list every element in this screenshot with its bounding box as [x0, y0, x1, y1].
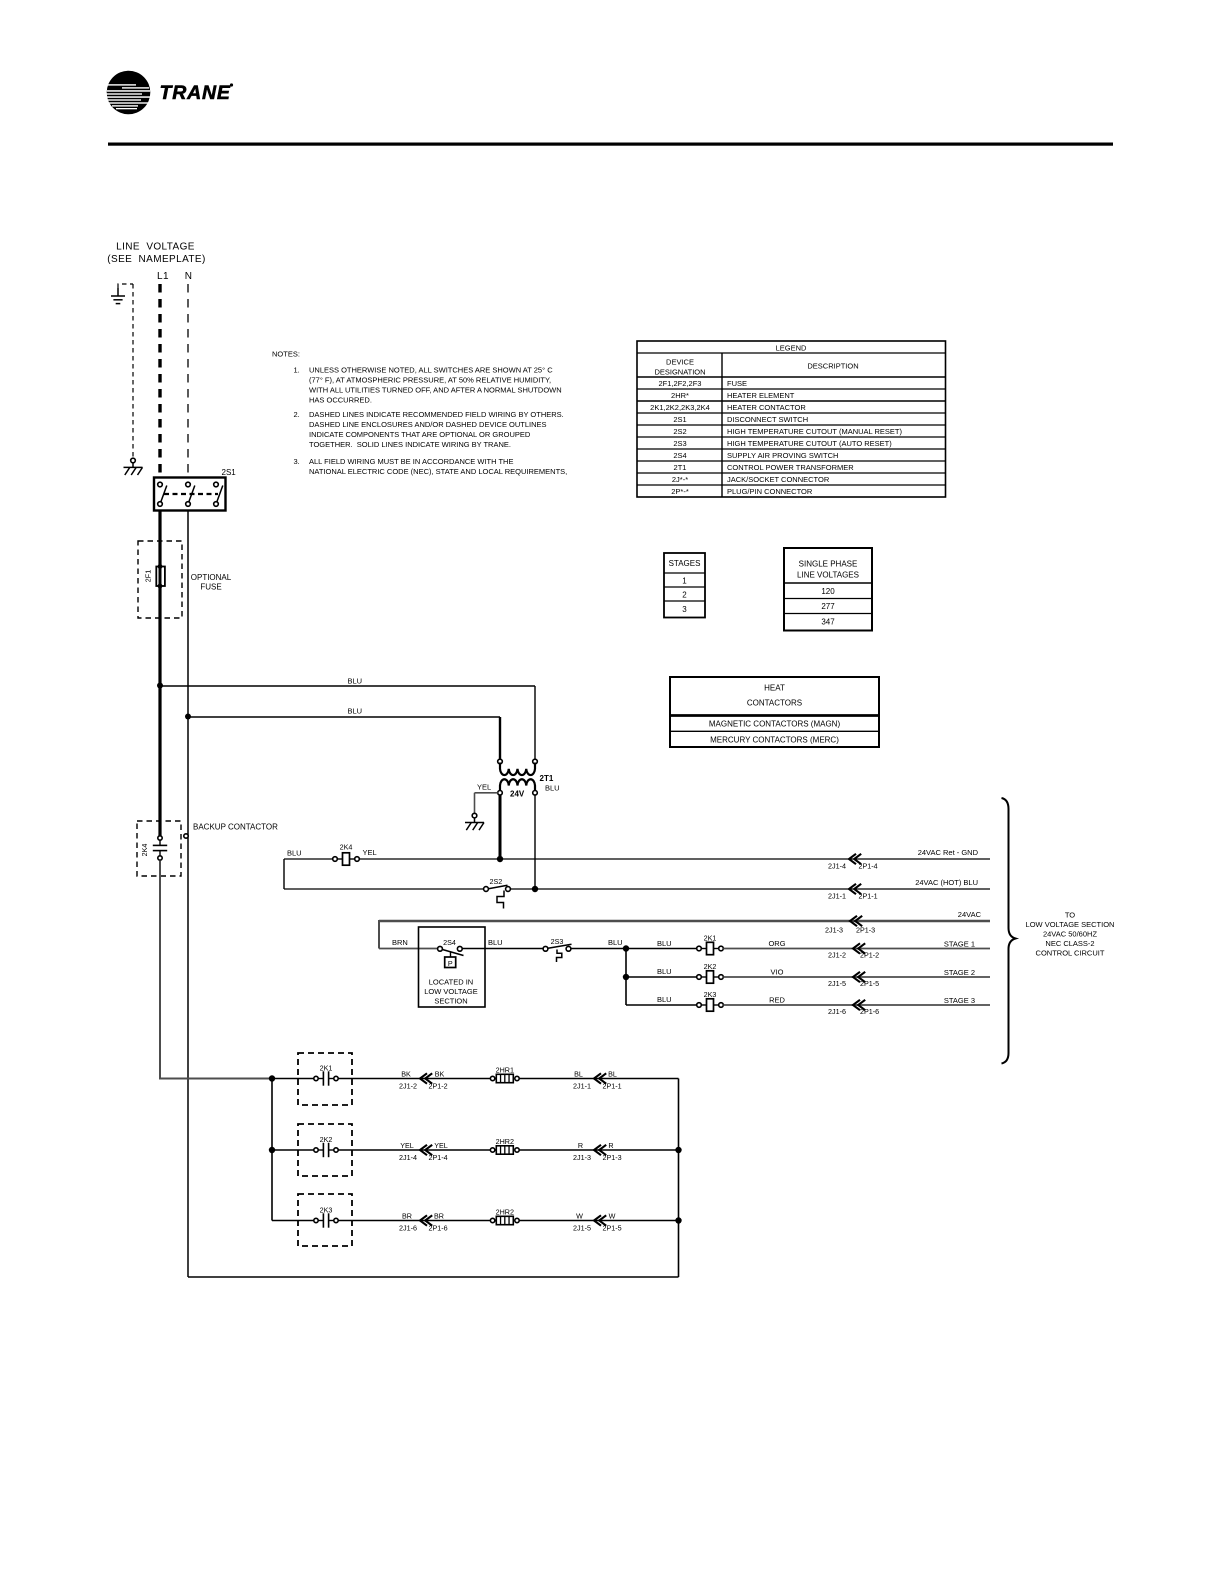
svg-text:2J1-1: 2J1-1: [828, 892, 846, 901]
svg-text:2J1-1: 2J1-1: [573, 1082, 591, 1091]
svg-text:LOW VOLTAGE: LOW VOLTAGE: [424, 987, 477, 996]
svg-text:YEL: YEL: [477, 783, 491, 792]
svg-text:LOW VOLTAGE SECTION: LOW VOLTAGE SECTION: [1026, 920, 1115, 929]
disconnect switch 2S1: [154, 468, 236, 511]
connector 2J1-1 2P1-1: [828, 884, 878, 901]
brace to low voltage section: [1002, 798, 1016, 1064]
svg-text:TRANE: TRANE: [160, 82, 231, 104]
stages table: [664, 553, 705, 618]
svg-text:2: 2: [682, 591, 687, 600]
svg-text:2T1: 2T1: [674, 463, 687, 472]
connector 2J1-5 2P1-5: [828, 972, 879, 988]
svg-text:ORG: ORG: [768, 939, 785, 948]
svg-text:2K1: 2K1: [320, 1064, 333, 1073]
earth ground: [111, 284, 133, 304]
notes text: [272, 350, 567, 477]
svg-text:2K1,2K2,2K3,2K4: 2K1,2K2,2K3,2K4: [650, 403, 710, 412]
svg-text:BR: BR: [434, 1212, 444, 1221]
connector 2J1-4 2P1-4 heater: [399, 1141, 448, 1162]
svg-text:BACKUP CONTACTOR: BACKUP CONTACTOR: [193, 823, 278, 832]
svg-text:CONTACTORS: CONTACTORS: [747, 699, 802, 708]
svg-text:BK: BK: [401, 1070, 411, 1079]
svg-text:24V: 24V: [510, 790, 525, 799]
connector 2J1-2 2P1-2 heater: [399, 1070, 448, 1091]
wire 24VAC HOT BLU line: [284, 888, 990, 890]
svg-text:2P1-6: 2P1-6: [860, 1007, 879, 1016]
svg-text:2S3: 2S3: [673, 439, 686, 448]
svg-text:BK: BK: [435, 1070, 445, 1079]
svg-text:2K2: 2K2: [704, 962, 717, 971]
svg-text:2J1-3: 2J1-3: [825, 926, 843, 935]
contact 2K3: [314, 1206, 338, 1228]
svg-text:2.: 2.: [294, 410, 300, 419]
wire N solid: [187, 511, 189, 1278]
connector 2J1-5 2P1-5 heater: [573, 1212, 622, 1233]
heater row 2 wire: [272, 1149, 679, 1151]
svg-text:2K4: 2K4: [340, 843, 353, 852]
svg-text:BLU: BLU: [657, 967, 672, 976]
svg-text:2J1-6: 2J1-6: [399, 1224, 417, 1233]
svg-text:BLU: BLU: [608, 938, 623, 947]
wire BLU L1 to transformer: [160, 677, 535, 760]
svg-text:2T1: 2T1: [540, 774, 554, 783]
wire YEL to ground: [475, 793, 498, 814]
svg-text:N: N: [185, 271, 193, 282]
label to low voltage section: [1026, 911, 1115, 958]
label OPTIONAL FUSE: [191, 573, 232, 592]
svg-text:2P1-1: 2P1-1: [859, 892, 878, 901]
svg-text:2J1-4: 2J1-4: [399, 1153, 417, 1162]
wire BLU stage3 feed: [626, 995, 699, 1005]
svg-text:3.: 3.: [294, 457, 300, 466]
svg-text:2P1-5: 2P1-5: [860, 979, 879, 988]
svg-text:JACK/SOCKET CONNECTOR: JACK/SOCKET CONNECTOR: [727, 475, 830, 484]
wire L1 dashed: [158, 284, 161, 477]
svg-text:HEAT: HEAT: [764, 684, 785, 693]
coil 2K2: [697, 962, 724, 983]
svg-text:2P*-*: 2P*-*: [671, 487, 689, 496]
svg-text:YEL: YEL: [434, 1141, 448, 1150]
svg-text:L1: L1: [157, 271, 169, 282]
svg-text:BLU: BLU: [657, 939, 672, 948]
left rail heater circuit: [269, 1075, 275, 1220]
Trane logo circle with stripes: [106, 71, 150, 115]
optional fuse dashed box: [138, 541, 182, 618]
connector 2J1-6 2P1-6 heater: [399, 1212, 448, 1233]
svg-text:2P1-2: 2P1-2: [860, 951, 879, 960]
svg-text:2K3: 2K3: [320, 1206, 333, 1215]
svg-text:W: W: [576, 1212, 583, 1221]
svg-text:2P1-5: 2P1-5: [603, 1224, 622, 1233]
wire 24VAC BRN line: [379, 920, 990, 949]
svg-text:1.: 1.: [294, 366, 300, 375]
svg-text:2P1-2: 2P1-2: [429, 1082, 448, 1091]
svg-text:BLU: BLU: [657, 995, 672, 1004]
svg-text:(SEE NAMEPLATE): (SEE NAMEPLATE): [107, 254, 205, 265]
svg-text:NATIONAL ELECTRIC CODE (NEC),: NATIONAL ELECTRIC CODE (NEC), STATE AND …: [309, 467, 567, 476]
svg-text:2P1-1: 2P1-1: [603, 1082, 622, 1091]
svg-text:2J1-3: 2J1-3: [573, 1153, 591, 1162]
bottom return wire: [188, 1276, 679, 1278]
wire L1 to backup contactor: [158, 586, 161, 836]
svg-text:2S2: 2S2: [673, 427, 686, 436]
heater element 2HR2: [490, 1137, 519, 1154]
chassis ground at disconnect: [124, 458, 143, 475]
svg-text:2S4: 2S4: [673, 451, 686, 460]
svg-text:2HR2: 2HR2: [496, 1137, 514, 1146]
svg-text:2J1-2: 2J1-2: [399, 1082, 417, 1091]
connector 2J1-3 2P1-3: [825, 916, 875, 935]
dashed box 2K2 contact: [298, 1124, 352, 1176]
svg-text:2K1: 2K1: [704, 934, 717, 943]
svg-text:2P1-3: 2P1-3: [856, 926, 875, 935]
svg-text:2K3: 2K3: [704, 990, 717, 999]
right rail heater circuit: [675, 1079, 681, 1278]
svg-text:DASHED LINES INDICATE RECOMMEN: DASHED LINES INDICATE RECOMMENDED FIELD …: [309, 410, 564, 419]
svg-text:2S4: 2S4: [443, 938, 456, 947]
svg-text:SUPPLY AIR PROVING SWITCH: SUPPLY AIR PROVING SWITCH: [727, 451, 838, 460]
svg-text:24VAC (HOT) BLU: 24VAC (HOT) BLU: [915, 878, 978, 887]
legend table: [637, 341, 946, 497]
svg-text:MAGNETIC CONTACTORS (MAGN): MAGNETIC CONTACTORS (MAGN): [709, 720, 841, 729]
contact 2K2: [314, 1135, 338, 1157]
svg-text:LINE VOLTAGE: LINE VOLTAGE: [116, 242, 195, 253]
svg-text:TO: TO: [1065, 911, 1075, 920]
svg-text:24VAC Ret - GND: 24VAC Ret - GND: [918, 848, 979, 857]
svg-text:NEC CLASS-2: NEC CLASS-2: [1045, 939, 1094, 948]
heater element 2HR1: [490, 1066, 519, 1083]
switch 2S2 manual cutout: [484, 877, 511, 909]
svg-text:SINGLE PHASE: SINGLE PHASE: [799, 560, 858, 569]
svg-text:LEGEND: LEGEND: [776, 344, 807, 353]
junction rail for stage coils: [623, 945, 629, 1005]
transformer 2T1 primary: [498, 759, 554, 783]
switch 2S3 auto cutout: [543, 937, 571, 962]
wire RED stage3: [723, 995, 990, 1005]
svg-text:2HR1: 2HR1: [496, 1066, 514, 1075]
svg-text:2J1-5: 2J1-5: [573, 1224, 591, 1233]
svg-text:HIGH TEMPERATURE CUTOUT (MANUA: HIGH TEMPERATURE CUTOUT (MANUAL RESET): [727, 427, 903, 436]
terminal circle on N line: [184, 834, 188, 838]
connector 2J1-1 2P1-1 heater: [573, 1070, 622, 1091]
contactor contact 2K4: [140, 836, 167, 860]
single phase line voltages table: [784, 548, 872, 631]
svg-text:2J1-6: 2J1-6: [828, 1007, 846, 1016]
svg-text:BLU: BLU: [488, 938, 503, 947]
svg-text:YEL: YEL: [400, 1141, 414, 1150]
wire BLU stage2 feed: [626, 967, 699, 977]
svg-text:DESIGNATION: DESIGNATION: [654, 368, 705, 377]
svg-text:2HR2: 2HR2: [496, 1208, 514, 1217]
svg-text:2S3: 2S3: [551, 937, 564, 946]
header rule: [108, 143, 1113, 146]
svg-text:DASHED LINE ENCLOSURES AND/OR: DASHED LINE ENCLOSURES AND/OR DASHED DEV…: [309, 420, 547, 429]
svg-text:YEL: YEL: [363, 848, 377, 857]
svg-text:FUSE: FUSE: [200, 583, 221, 592]
heater row 3 wire: [272, 1220, 679, 1222]
label LINE VOLTAGE: [107, 242, 205, 266]
svg-text:MERCURY CONTACTORS (MERC): MERCURY CONTACTORS (MERC): [710, 736, 839, 745]
svg-text:BLU: BLU: [545, 784, 560, 793]
svg-text:INDICATE COMPONENTS THAT ARE O: INDICATE COMPONENTS THAT ARE OPTIONAL OR…: [309, 430, 531, 439]
coil 2K3: [697, 990, 724, 1011]
svg-text:2S1: 2S1: [673, 415, 686, 424]
wire secondary YEL drop: [499, 795, 502, 859]
svg-text:FUSE: FUSE: [727, 379, 747, 388]
svg-text:2J1-5: 2J1-5: [828, 979, 846, 988]
wire N dashed: [187, 284, 189, 477]
svg-text:DESCRIPTION: DESCRIPTION: [807, 362, 858, 371]
svg-text:LINE VOLTAGES: LINE VOLTAGES: [797, 571, 859, 580]
svg-text:CONTROL CIRCUIT: CONTROL CIRCUIT: [1036, 949, 1105, 958]
svg-text:BLU: BLU: [348, 677, 363, 686]
svg-text:3: 3: [682, 605, 687, 614]
contact 2K1: [314, 1064, 338, 1086]
svg-text:HEATER ELEMENT: HEATER ELEMENT: [727, 391, 795, 400]
svg-text:24VAC 50/60HZ: 24VAC 50/60HZ: [1043, 930, 1097, 939]
svg-text:NOTES:: NOTES:: [272, 350, 300, 359]
svg-text:2F1: 2F1: [144, 570, 153, 582]
svg-text:HIGH TEMPERATURE CUTOUT (AUTO: HIGH TEMPERATURE CUTOUT (AUTO RESET): [727, 439, 892, 448]
svg-text:2S2: 2S2: [490, 877, 503, 886]
wire ORG stage1: [723, 939, 990, 949]
wire 2S3 to coils junction: [571, 938, 698, 949]
dashed box 2K3 contact: [298, 1194, 352, 1246]
svg-text:R: R: [608, 1141, 613, 1150]
svg-text:CONTROL POWER TRANSFORMER: CONTROL POWER TRANSFORMER: [727, 463, 854, 472]
svg-text:STAGE 3: STAGE 3: [944, 996, 975, 1005]
wire BLU N to transformer: [188, 707, 500, 760]
svg-text:VIO: VIO: [771, 967, 784, 976]
svg-text:2P1-3: 2P1-3: [603, 1153, 622, 1162]
junction: [497, 856, 503, 862]
svg-text:RED: RED: [769, 995, 785, 1004]
connector 2J1-2 2P1-2: [828, 943, 879, 959]
svg-text:2J1-2: 2J1-2: [828, 951, 846, 960]
svg-text:120: 120: [821, 587, 835, 596]
svg-text:ALL FIELD WIRING MUST BE IN AC: ALL FIELD WIRING MUST BE IN ACCORDANCE W…: [309, 457, 513, 466]
svg-text:BRN: BRN: [392, 938, 408, 947]
svg-text:BL: BL: [574, 1070, 583, 1079]
svg-text:STAGES: STAGES: [669, 559, 701, 568]
svg-text:STAGE 2: STAGE 2: [944, 968, 975, 977]
svg-text:OPTIONAL: OPTIONAL: [191, 573, 232, 582]
svg-text:LOCATED IN: LOCATED IN: [429, 978, 473, 987]
wire secondary BLU drop: [534, 795, 536, 889]
connector 2J1-6 2P1-6: [828, 1000, 879, 1016]
fuse 2F1: [144, 564, 165, 588]
svg-text:DISCONNECT SWITCH: DISCONNECT SWITCH: [727, 415, 808, 424]
wire 2S4 to 2S3: [462, 938, 543, 949]
svg-text:HAS OCCURRED.: HAS OCCURRED.: [309, 396, 372, 405]
wire VIO stage2: [723, 967, 990, 977]
wire dashed ground to chassis: [132, 284, 134, 458]
supply air proving switch 2S4 box: [419, 927, 486, 1007]
heater row 1 wire: [272, 1078, 679, 1080]
connector 2J1-4 2P1-4: [828, 854, 878, 871]
svg-text:DEVICE: DEVICE: [666, 358, 694, 367]
svg-text:24VAC: 24VAC: [958, 910, 982, 919]
svg-text:P: P: [448, 959, 453, 968]
svg-text:STAGE 1: STAGE 1: [944, 940, 975, 949]
svg-text:2S1: 2S1: [222, 468, 237, 477]
svg-text:BR: BR: [402, 1212, 412, 1221]
svg-text:2P1-6: 2P1-6: [429, 1224, 448, 1233]
coil 2K1: [697, 934, 724, 955]
svg-text:2K2: 2K2: [320, 1135, 333, 1144]
wire 24VAC Ret YEL line: [284, 849, 990, 890]
svg-text:WITH ALL UTILITIES TURNED OFF,: WITH ALL UTILITIES TURNED OFF, AND AFTER…: [309, 386, 562, 395]
svg-text:BLU: BLU: [348, 707, 363, 716]
coil 2K4: [333, 843, 377, 866]
svg-text:347: 347: [821, 618, 835, 627]
wire L1 solid: [158, 511, 161, 567]
svg-text:UNLESS OTHERWISE NOTED, ALL SW: UNLESS OTHERWISE NOTED, ALL SWITCHES ARE…: [309, 366, 553, 375]
svg-text:2K4: 2K4: [140, 844, 149, 857]
junction N BLU tap: [185, 714, 191, 720]
legend text: [650, 344, 902, 497]
svg-text:BLU: BLU: [287, 849, 302, 858]
junction: [532, 886, 538, 892]
svg-text:2P1-4: 2P1-4: [429, 1153, 448, 1162]
svg-text:2J1-4: 2J1-4: [828, 862, 846, 871]
svg-text:HEATER CONTACTOR: HEATER CONTACTOR: [727, 403, 806, 412]
svg-text:W: W: [609, 1212, 616, 1221]
svg-text:SECTION: SECTION: [434, 997, 467, 1006]
transformer 2T1 secondary: [477, 779, 560, 798]
connector 2J1-3 2P1-3 heater: [573, 1141, 622, 1162]
svg-text:PLUG/PIN CONNECTOR: PLUG/PIN CONNECTOR: [727, 487, 813, 496]
svg-text:BL: BL: [608, 1070, 617, 1079]
Trane wordmark: [160, 82, 234, 104]
svg-text:2J*-*: 2J*-*: [672, 475, 688, 484]
chassis ground at transformer: [465, 813, 484, 830]
svg-text:R: R: [578, 1141, 583, 1150]
svg-text:(77° F), AT ATMOSPHERIC PRESSU: (77° F), AT ATMOSPHERIC PRESSURE, AT 50%…: [309, 376, 551, 385]
backup contactor dashed box 2K4: [137, 821, 181, 876]
junction L1 BLU tap: [157, 683, 163, 689]
svg-text:TOGETHER. SOLID LINES INDICAT: TOGETHER. SOLID LINES INDICATE WIRING BY…: [309, 440, 511, 449]
svg-text:2F1,2F2,2F3: 2F1,2F2,2F3: [659, 379, 702, 388]
svg-text:1: 1: [682, 577, 687, 586]
heater element 2HR2 row3: [490, 1208, 519, 1225]
heat contactors table: [670, 677, 879, 747]
dashed box 2K1 contact: [298, 1053, 352, 1105]
svg-text:277: 277: [821, 602, 835, 611]
wire L1 down to heater rows: [160, 861, 272, 1079]
svg-text:2HR*: 2HR*: [671, 391, 689, 400]
svg-text:2P1-4: 2P1-4: [859, 862, 878, 871]
